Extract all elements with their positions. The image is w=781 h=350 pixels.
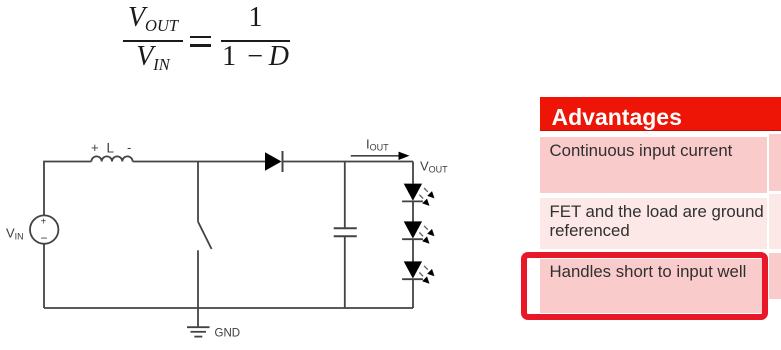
- svg-text:IOUT: IOUT: [366, 137, 389, 153]
- svg-text:-: -: [127, 140, 131, 155]
- svg-text:GND: GND: [215, 328, 241, 340]
- svg-text:VIN: VIN: [6, 226, 24, 242]
- svg-text:L: L: [107, 141, 115, 156]
- svg-text:−: −: [41, 231, 48, 245]
- svg-text:+: +: [91, 140, 99, 155]
- svg-text:+: +: [41, 217, 47, 228]
- svg-text:VOUT: VOUT: [420, 159, 448, 175]
